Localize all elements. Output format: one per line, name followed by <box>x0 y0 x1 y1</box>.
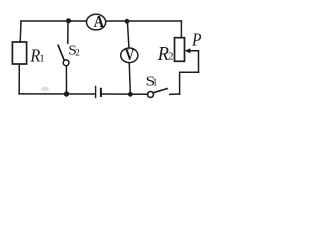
svg-text:2: 2 <box>168 51 174 63</box>
svg-text:P: P <box>191 29 201 49</box>
scan smudge artifact <box>41 87 49 91</box>
node: junction of voltmeter branch on bottom wire <box>128 92 133 97</box>
wire: right side down to rheostat top <box>180 21 182 38</box>
wire: bottom segment battery to S1 <box>101 93 147 95</box>
svg-text:2: 2 <box>75 47 80 57</box>
switch S1 hinge terminal <box>148 92 154 98</box>
wire: top-right segment <box>127 20 181 22</box>
wire: top-left segment <box>21 20 69 22</box>
wire: top segment from junction to ammeter <box>69 20 87 22</box>
switch S2 wire from top junction <box>67 21 69 43</box>
wire: S2 branch lower <box>65 66 67 94</box>
svg-text:A: A <box>94 13 105 31</box>
switch S1 blade (open) <box>153 89 167 93</box>
svg-text:V: V <box>125 47 135 64</box>
node: junction of voltmeter branch on top wire <box>125 19 130 24</box>
node: junction of S2 branch on top wire <box>66 18 71 23</box>
resistor R1 <box>12 42 26 64</box>
wire: left side lower <box>18 64 20 94</box>
voltmeter V <box>121 48 138 63</box>
wire: slider arrow tail <box>190 51 199 72</box>
battery negative plate (short) <box>100 89 102 96</box>
wire: left side upper <box>19 21 22 42</box>
rheostat slider arrowhead pointing left at R2 <box>185 48 191 53</box>
switch S2 blade (open) <box>58 45 64 60</box>
ammeter A <box>87 14 106 30</box>
resistor R2 (rheostat body) <box>175 38 185 62</box>
battery positive plate (long) <box>95 86 97 97</box>
svg-text:1: 1 <box>153 77 158 88</box>
wire: voltmeter branch lower <box>129 64 130 95</box>
wire: top segment from ammeter to V junction <box>107 20 128 22</box>
svg-text:1: 1 <box>39 53 45 65</box>
node: junction of S2 branch on bottom wire <box>64 91 69 96</box>
wire: voltmeter branch upper <box>127 21 128 47</box>
wire: bottom left segment to battery <box>19 93 95 95</box>
wire: bottom right stub to switch S1 <box>170 93 180 95</box>
switch S2 hinge terminal <box>63 60 69 66</box>
wire: lower right jog <box>180 72 199 94</box>
